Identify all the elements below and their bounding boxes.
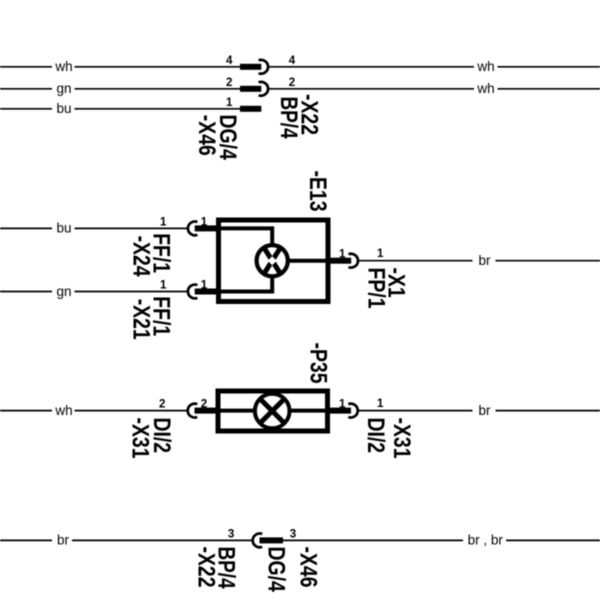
wire br row-D after pin bbox=[283, 539, 463, 541]
lamp -P35 cross stroke 1 bbox=[261, 400, 283, 422]
wire bu row-B left stub bbox=[0, 227, 52, 229]
wire wh row-C left stub bbox=[0, 410, 52, 412]
connector pin 2 into -P35 bbox=[195, 408, 219, 414]
inner wire lamp to output bbox=[289, 259, 329, 263]
connector pin 3 -X46 bbox=[260, 537, 284, 543]
svg-text:-X31: -X31 bbox=[388, 418, 415, 459]
wire row-A after socket bbox=[269, 66, 474, 68]
socket pin 1 -X24 bbox=[188, 221, 197, 235]
svg-text:1: 1 bbox=[377, 397, 384, 410]
svg-text:-X1: -X1 bbox=[383, 268, 410, 298]
socket pin 3 -X22 bbox=[253, 534, 262, 548]
svg-text:4: 4 bbox=[289, 54, 296, 67]
svg-text:2: 2 bbox=[226, 76, 232, 89]
svg-text:gn: gn bbox=[56, 284, 71, 299]
svg-text:br: br bbox=[478, 403, 491, 418]
connector pin 1 -X1 bbox=[331, 258, 352, 264]
connector pin 1 into -E13 bbox=[195, 225, 219, 231]
svg-text:-X46: -X46 bbox=[193, 115, 220, 156]
svg-text:2: 2 bbox=[289, 76, 295, 89]
wire row-A to right edge bbox=[498, 88, 600, 90]
wire wh row-C to socket bbox=[75, 410, 188, 412]
lamp -P35 cross stroke 2 bbox=[261, 400, 283, 422]
svg-text:4: 4 bbox=[226, 54, 233, 67]
svg-text:1: 1 bbox=[160, 216, 167, 229]
inner wire from pin 1 top bbox=[219, 228, 273, 244]
svg-text:BP/4: BP/4 bbox=[213, 547, 240, 590]
wire gn row-A to connector bbox=[75, 88, 241, 90]
svg-text:1: 1 bbox=[160, 279, 167, 292]
lamp -E13 cross stroke 2 bbox=[264, 247, 281, 275]
svg-text:wh: wh bbox=[54, 403, 72, 418]
svg-text:bu: bu bbox=[56, 101, 71, 116]
lamp symbol -P35 circle bbox=[255, 394, 290, 429]
svg-text:-E13: -E13 bbox=[304, 171, 331, 212]
svg-text:1: 1 bbox=[226, 96, 233, 109]
wire br row-D left stub bbox=[0, 539, 52, 541]
inner wire right of lamp bbox=[290, 409, 328, 413]
svg-text:-X46: -X46 bbox=[295, 547, 322, 588]
svg-text:2: 2 bbox=[159, 398, 165, 411]
svg-text:gn: gn bbox=[56, 81, 71, 96]
svg-text:1: 1 bbox=[201, 216, 208, 229]
svg-text:-X31: -X31 bbox=[127, 418, 154, 459]
svg-text:wh: wh bbox=[54, 59, 72, 74]
wire gn row-A left stub bbox=[0, 88, 52, 90]
connector pin 2 -X46 bbox=[240, 86, 261, 92]
wire row-A after socket bbox=[269, 88, 474, 90]
connector pin 4 -X46 bbox=[240, 64, 261, 70]
connector pin 1 -X31 right bbox=[330, 408, 351, 414]
svg-text:DG/4: DG/4 bbox=[263, 547, 290, 593]
svg-text:1: 1 bbox=[377, 247, 384, 260]
svg-text:3: 3 bbox=[290, 527, 297, 540]
lamp -E13 center gap bbox=[268, 256, 277, 265]
lamp symbol -E13 circle bbox=[257, 245, 288, 276]
wire br row-B to right edge bbox=[496, 260, 600, 262]
socket pin 1 -X31 right bbox=[348, 404, 357, 418]
svg-text:3: 3 bbox=[228, 527, 235, 540]
wire row-A to right edge bbox=[498, 66, 600, 68]
svg-text:DI/2: DI/2 bbox=[362, 418, 389, 454]
wire bu row-A left stub bbox=[0, 108, 52, 110]
socket pin 1 -X21 bbox=[188, 285, 197, 299]
svg-text:2: 2 bbox=[201, 398, 207, 411]
wire bu row-B to socket bbox=[75, 227, 188, 229]
svg-text:1: 1 bbox=[201, 279, 208, 292]
svg-text:-X22: -X22 bbox=[296, 94, 323, 135]
svg-text:wh: wh bbox=[476, 81, 494, 96]
wire wh row-A left stub bbox=[0, 66, 52, 68]
connector pin 1 into -E13 bbox=[195, 289, 219, 295]
socket pin 1 -X1 bbox=[349, 254, 358, 268]
component box -P35 bbox=[218, 391, 328, 431]
svg-text:wh: wh bbox=[476, 59, 494, 74]
component box -E13 bbox=[219, 220, 329, 302]
svg-text:br , br: br , br bbox=[468, 533, 504, 548]
inner wire from pin 1 bottom bbox=[219, 278, 273, 292]
svg-text:-P35: -P35 bbox=[305, 343, 332, 384]
wire gn row-B left stub bbox=[0, 291, 52, 293]
socket pin 2 -X22 bbox=[259, 82, 268, 96]
connector pin 1 -X46 bbox=[240, 106, 261, 112]
svg-text:br: br bbox=[57, 533, 70, 548]
socket pin 4 -X22 bbox=[259, 60, 268, 74]
wire br row-C bbox=[358, 410, 472, 412]
wire br row-D to socket bbox=[72, 539, 252, 541]
wire bu row-A to connector bbox=[75, 108, 241, 110]
inner wire left of lamp bbox=[218, 409, 255, 413]
socket pin 2 -X31 bbox=[188, 404, 197, 418]
wire gn row-B to socket bbox=[75, 291, 188, 293]
wire br row-D to right edge bbox=[506, 539, 600, 541]
lamp -E13 cross stroke 1 bbox=[264, 247, 281, 275]
wire br row-B bbox=[359, 260, 473, 262]
svg-text:br: br bbox=[478, 253, 491, 268]
svg-text:-X24: -X24 bbox=[127, 236, 154, 278]
wire br row-C to right edge bbox=[496, 410, 600, 412]
svg-text:bu: bu bbox=[56, 221, 71, 236]
svg-text:1: 1 bbox=[339, 397, 346, 410]
wire wh row-A to connector bbox=[75, 66, 241, 68]
svg-text:1: 1 bbox=[339, 248, 346, 261]
svg-text:-X21: -X21 bbox=[127, 299, 154, 340]
